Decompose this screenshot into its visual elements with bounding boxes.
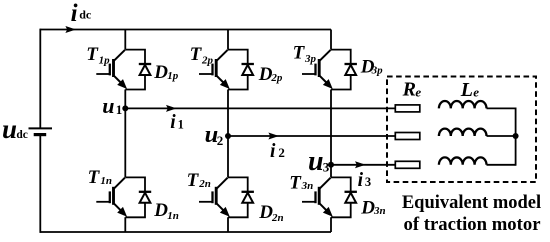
svg-text:T: T: [86, 44, 99, 65]
svg-text:u: u: [2, 114, 17, 144]
transistor T3p: [302, 50, 331, 88]
inductor Le phase 3: [439, 157, 487, 164]
wire: phase 2 output: [228, 135, 395, 137]
svg-text:L: L: [460, 79, 473, 101]
node: motor neutral point: [513, 133, 519, 139]
svg-text:i: i: [170, 112, 176, 133]
node u3: [328, 162, 334, 168]
svg-text:2n: 2n: [271, 212, 284, 224]
inductor Le phase 1: [439, 101, 487, 108]
diode D3n: [331, 177, 357, 217]
svg-text:e: e: [415, 85, 421, 100]
svg-text:2n: 2n: [198, 178, 211, 190]
svg-text:u: u: [308, 146, 324, 177]
diode D1n: [125, 177, 151, 217]
resistor Re phase 2: [395, 133, 420, 140]
wire: leg 2 vertical: [227, 30, 229, 233]
inductor Le phase 2: [439, 129, 487, 136]
svg-text:dc: dc: [79, 8, 92, 22]
transistor T3n: [302, 178, 331, 216]
wire: leg 3 vertical: [330, 30, 332, 233]
diode D1p: [125, 50, 151, 90]
svg-text:2p: 2p: [270, 72, 283, 84]
svg-text:1n: 1n: [100, 175, 112, 187]
svg-text:dc: dc: [16, 129, 28, 141]
svg-text:T: T: [187, 170, 200, 191]
resistor Re phase 3: [395, 161, 420, 168]
transistor T2n: [199, 178, 228, 216]
svg-text:T: T: [289, 172, 302, 193]
battery source u_dc: [29, 127, 53, 129]
svg-text:i: i: [71, 0, 78, 27]
wire: phase 3 to neutral: [487, 164, 516, 166]
arrow i1: [166, 105, 177, 112]
svg-text:1p: 1p: [167, 70, 179, 82]
svg-text:1: 1: [116, 102, 123, 117]
svg-text:i: i: [270, 141, 276, 162]
svg-text:3n: 3n: [373, 205, 386, 217]
svg-text:D: D: [153, 62, 168, 83]
node u2: [225, 133, 231, 139]
resistor Re phase 1: [395, 105, 420, 112]
svg-text:3: 3: [323, 159, 330, 174]
wire: phase 1 to neutral: [487, 107, 516, 109]
svg-text:2: 2: [278, 145, 285, 160]
svg-text:3n: 3n: [301, 180, 314, 192]
arrow i2: [268, 133, 279, 140]
svg-text:3p: 3p: [371, 65, 384, 77]
svg-text:T: T: [88, 167, 101, 188]
diode D2p: [228, 50, 254, 90]
svg-text:e: e: [473, 85, 479, 100]
svg-text:3p: 3p: [304, 53, 317, 65]
diode D2n: [228, 177, 254, 217]
wire: phase 1 output: [125, 107, 395, 109]
svg-text:T: T: [293, 43, 306, 64]
wire: left source branch lower: [39, 135, 41, 233]
svg-text:i: i: [358, 170, 364, 191]
transistor T1n: [96, 178, 125, 216]
transistor T1p: [96, 50, 125, 88]
wire: left source branch upper: [39, 29, 41, 129]
svg-text:2p: 2p: [201, 55, 214, 67]
node u1: [122, 105, 128, 111]
svg-text:1: 1: [178, 118, 184, 132]
svg-text:1n: 1n: [167, 210, 179, 222]
svg-text:1p: 1p: [99, 55, 111, 67]
svg-text:u: u: [102, 93, 114, 118]
svg-text:of traction motor: of traction motor: [404, 214, 541, 235]
svg-text:T: T: [190, 44, 203, 65]
dashed box: equivalent model of traction motor: [387, 77, 536, 183]
wire: phase 3 output: [331, 164, 395, 166]
arrow i_dc: [65, 26, 76, 33]
svg-text:2: 2: [217, 133, 224, 148]
svg-text:Equivalent model: Equivalent model: [402, 193, 541, 213]
wire: neutral vertical: [515, 108, 517, 166]
wire: top DC rail: [40, 29, 331, 31]
svg-text:D: D: [153, 200, 168, 221]
wire: leg 1 vertical: [124, 30, 126, 233]
wire: phase 2 to neutral: [487, 135, 516, 137]
wire: bottom DC rail: [40, 231, 331, 233]
diode D3p: [331, 50, 357, 90]
arrow i3: [355, 161, 366, 168]
transistor T2p: [199, 50, 228, 88]
svg-text:R: R: [402, 79, 416, 101]
svg-text:3: 3: [365, 175, 371, 189]
